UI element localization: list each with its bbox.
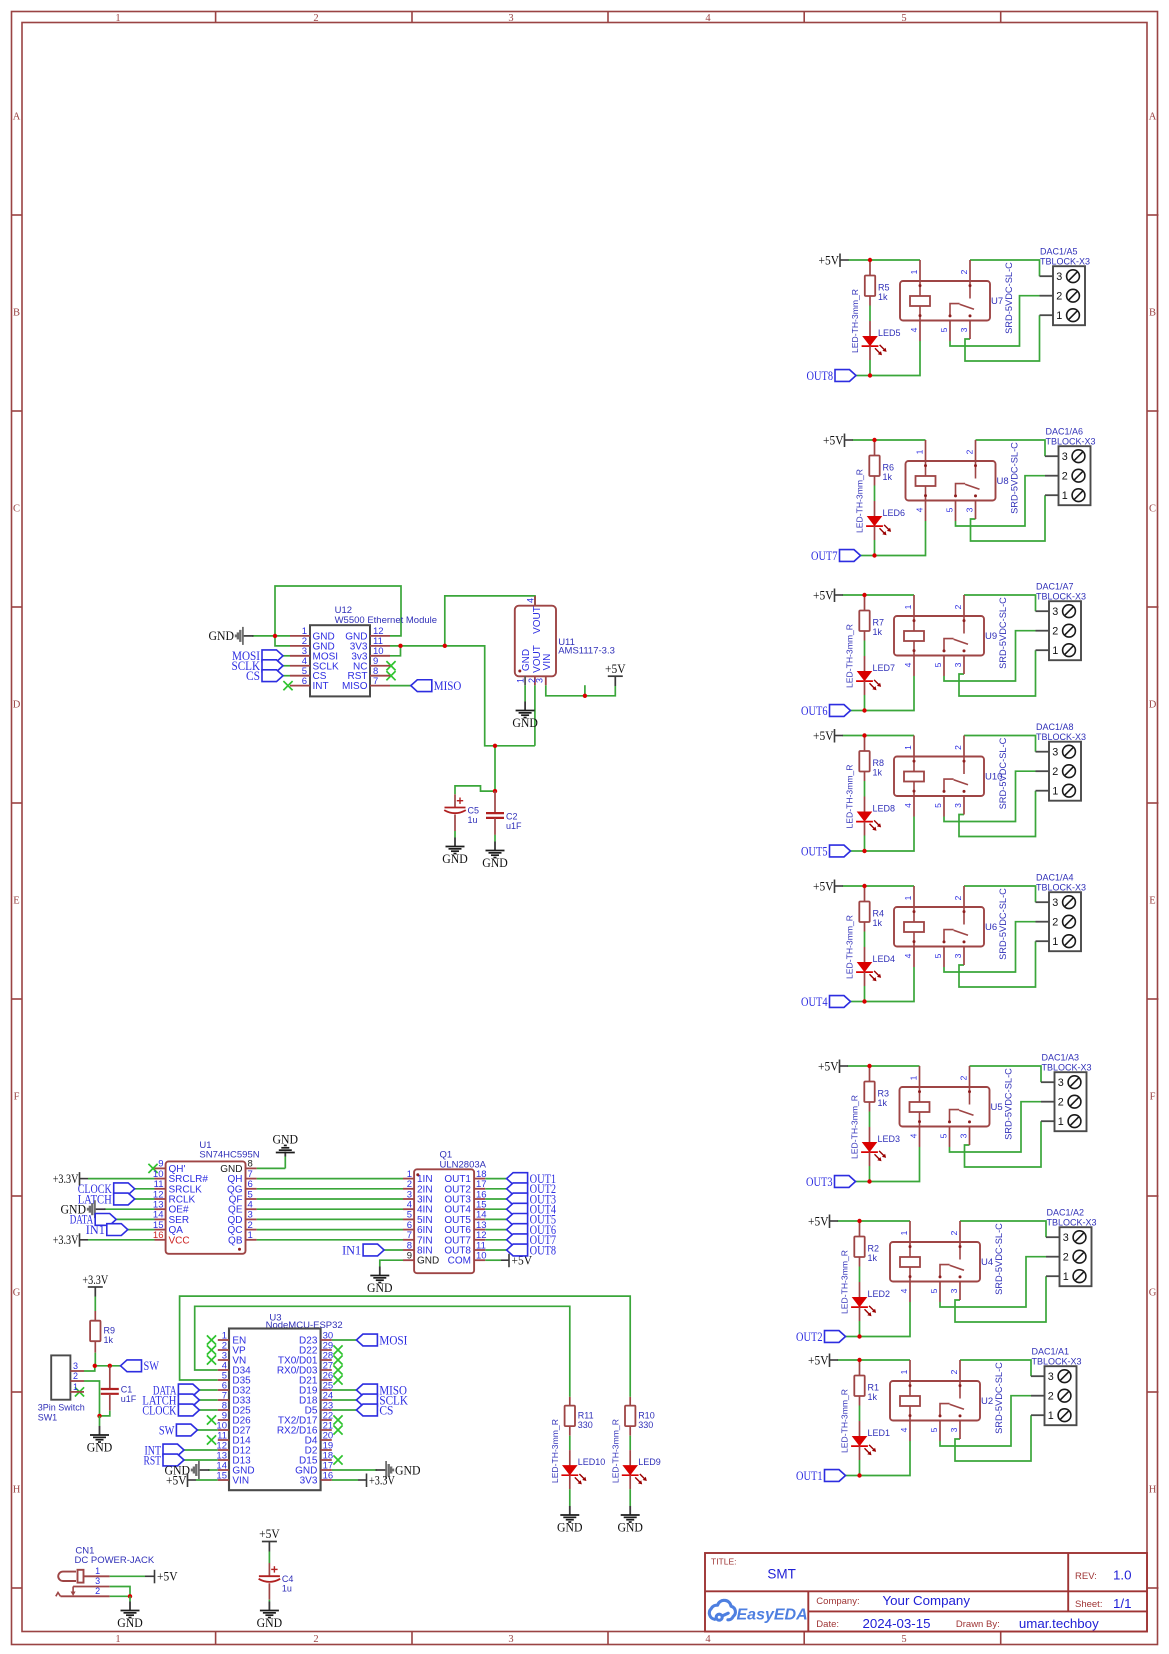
no-connect X U12 pin 8 RST: [386, 671, 395, 680]
junction +5V/R5: [868, 258, 872, 262]
junction U12 GND: [273, 634, 277, 638]
net label OUT3: [835, 1176, 856, 1188]
svg-text:LED-TH-3mm_R: LED-TH-3mm_R: [855, 469, 865, 533]
LED LED9 LED-TH-3mm_R: [629, 1450, 631, 1465]
wire LED10 to ground: [569, 1489, 571, 1506]
svg-text:R10: R10: [638, 1411, 655, 1421]
wire relay pin 5 to terminal DAC1/A2 pin 2: [940, 1257, 1046, 1307]
junction +5V/R7: [862, 593, 866, 597]
svg-text:OUT8: OUT8: [530, 1242, 557, 1257]
wire resistor R6 to LED LED6: [874, 486, 876, 502]
svg-text:1: 1: [909, 1075, 919, 1080]
svg-text:330: 330: [578, 1420, 593, 1430]
wire relay pin 2 to terminal DAC1/A5 pin 3: [970, 260, 1040, 276]
svg-text:2: 2: [959, 1075, 969, 1080]
wire OUT2 to relay pin 4: [860, 1302, 911, 1337]
ground GND (CN1): [129, 1602, 131, 1611]
svg-text:F: F: [1150, 1092, 1156, 1103]
net label MISO (U12): [390, 685, 411, 687]
svg-text:2: 2: [313, 13, 318, 24]
wire C5 to ground: [454, 831, 456, 838]
net label CLOCK (U1): [135, 1188, 155, 1190]
svg-text:OUT8: OUT8: [807, 368, 834, 383]
svg-text:LED1: LED1: [868, 1428, 891, 1438]
svg-text:TBLOCK-X3: TBLOCK-X3: [1032, 1357, 1082, 1367]
svg-text:3: 3: [959, 1133, 969, 1138]
svg-text:LED4: LED4: [873, 954, 896, 964]
relay U7 SRD-5VDC-SL-C: [900, 281, 990, 321]
svg-text:GND: GND: [257, 1615, 283, 1630]
svg-text:3: 3: [953, 803, 963, 808]
svg-text:SRD-5VDC-SL-C: SRD-5VDC-SL-C: [998, 737, 1008, 809]
svg-text:SRD-5VDC-SL-C: SRD-5VDC-SL-C: [994, 1362, 1004, 1434]
power flag GND (U1 OE#): [104, 1208, 155, 1210]
svg-text:2: 2: [949, 1369, 959, 1374]
svg-text:5: 5: [901, 13, 906, 24]
junction OUT4/LED: [862, 999, 866, 1003]
ground GND (Q1 pin 9): [379, 1267, 381, 1276]
net label OUT7: [840, 550, 861, 562]
resistor R11 330: [569, 1397, 571, 1406]
power flag +3.3V (U3 3V3): [332, 1479, 358, 1481]
ground GND (U1 pin 8): [284, 1152, 286, 1157]
svg-text:H: H: [1149, 1485, 1157, 1496]
wire relay pin 3 to terminal DAC1/A8 pin 1: [959, 791, 1036, 837]
ground GND (LED10): [569, 1506, 571, 1515]
svg-text:SRD-5VDC-SL-C: SRD-5VDC-SL-C: [998, 597, 1008, 669]
no-connect X SW1 pin 1: [75, 1387, 84, 1396]
LED LED8 LED-TH-3mm_R: [864, 797, 866, 812]
svg-text:1: 1: [903, 745, 913, 750]
svg-text:3: 3: [1052, 747, 1058, 759]
relay U6 SRD-5VDC-SL-C: [894, 907, 984, 947]
svg-text:DAC1/A1: DAC1/A1: [1032, 1347, 1070, 1357]
svg-text:D: D: [13, 700, 21, 711]
junction OUT6/LED: [862, 708, 866, 712]
svg-text:C1: C1: [121, 1385, 133, 1395]
wire LED to net label OUT6: [851, 710, 865, 712]
net label CLOCK (U3 D25): [199, 1409, 217, 1411]
power flag +5V (U3 VIN): [196, 1479, 218, 1481]
svg-text:R5: R5: [878, 283, 890, 293]
svg-text:GND: GND: [273, 1132, 299, 1147]
svg-text:U5: U5: [991, 1102, 1003, 1113]
net label DATA (U1 SER): [116, 1218, 154, 1220]
svg-text:TBLOCK-X3: TBLOCK-X3: [1046, 437, 1096, 447]
svg-text:5: 5: [939, 327, 949, 332]
net label SCLK (U12): [283, 665, 290, 667]
svg-text:LED-TH-3mm_R: LED-TH-3mm_R: [840, 1389, 850, 1453]
svg-text:3: 3: [535, 678, 545, 683]
junction +5V/R8: [862, 733, 866, 737]
net label OUT6: [830, 705, 851, 717]
svg-text:OUT5: OUT5: [801, 843, 828, 858]
svg-text:LED8: LED8: [873, 804, 896, 814]
net labels OUT1-OUT8 (Q1 outputs): [485, 1178, 506, 1180]
svg-text:SW: SW: [144, 1358, 160, 1373]
svg-text:3: 3: [1048, 1371, 1054, 1383]
svg-text:1k: 1k: [104, 1335, 114, 1345]
junction +5V/R6: [872, 438, 876, 442]
wire Q1 GND pin 9 to ground: [380, 1260, 403, 1266]
wire SW1 pin2 to GND node: [84, 1381, 100, 1416]
svg-text:GND: GND: [482, 855, 508, 870]
svg-text:5: 5: [945, 507, 955, 512]
net label OUT5: [830, 845, 851, 857]
svg-text:VCC: VCC: [169, 1235, 190, 1246]
svg-text:3: 3: [949, 1288, 959, 1293]
LED LED6 LED-TH-3mm_R: [874, 501, 876, 516]
power flag GND (U3 pin14): [208, 1469, 218, 1471]
power flag +5V (OUT8 block): [839, 254, 841, 268]
svg-text:LED10: LED10: [578, 1457, 606, 1467]
svg-text:2: 2: [959, 269, 969, 274]
wire relay pin 5 to terminal DAC1/A4 pin 2: [944, 922, 1036, 972]
svg-text:SRD-5VDC-SL-C: SRD-5VDC-SL-C: [1004, 262, 1014, 334]
svg-text:LED-TH-3mm_R: LED-TH-3mm_R: [850, 289, 860, 353]
svg-text:+5V: +5V: [157, 1569, 178, 1584]
svg-text:DAC1/A6: DAC1/A6: [1046, 427, 1084, 437]
wire relay pin 5 to terminal DAC1/A6 pin 2: [956, 476, 1046, 526]
net label MOSI (U3 D23): [332, 1339, 357, 1341]
wire +5V rail to relay U8 pin 1: [853, 439, 926, 441]
svg-text:+5V: +5V: [808, 1352, 829, 1367]
svg-text:1: 1: [899, 1230, 909, 1235]
svg-text:3: 3: [953, 953, 963, 958]
resistor R7 1k: [864, 595, 866, 611]
svg-text:3: 3: [1062, 451, 1068, 463]
svg-text:1: 1: [1063, 1271, 1069, 1283]
junction +5V/R3: [867, 1064, 871, 1068]
svg-text:U9: U9: [985, 631, 997, 642]
relay U10 SRD-5VDC-SL-C: [894, 757, 984, 797]
svg-text:LED3: LED3: [878, 1134, 901, 1144]
capacitor C5 1u: [454, 794, 456, 807]
svg-text:2: 2: [95, 1586, 100, 1596]
resistor R6 1k: [874, 440, 876, 456]
svg-text:4: 4: [903, 953, 913, 958]
switch SW1 3Pin Switch: [51, 1355, 70, 1399]
net label SW (U3 D27): [197, 1429, 217, 1431]
svg-text:R4: R4: [873, 909, 885, 919]
svg-text:GND: GND: [442, 851, 468, 866]
power flag +5V (OUT7 block): [844, 434, 846, 448]
resistor R8 1k: [864, 736, 866, 752]
svg-text:R7: R7: [873, 618, 885, 628]
svg-text:2: 2: [949, 1230, 959, 1235]
junction 3V3 pin10/pin11: [398, 644, 402, 648]
wire SW node row: [95, 1365, 120, 1367]
wire OUT1 to relay pin 4: [860, 1441, 911, 1476]
wires U1 outputs to Q1 inputs: [257, 1178, 403, 1180]
svg-text:1: 1: [903, 895, 913, 900]
net label CS (U12): [283, 675, 290, 677]
no-connect X U12 pin 9 NC: [386, 661, 395, 670]
svg-text:4: 4: [903, 662, 913, 667]
net label RST (U3 D13): [184, 1459, 218, 1461]
wire resistor R4 to LED LED4: [864, 932, 866, 948]
no-connect X U1 pin 9: [148, 1164, 157, 1173]
ground GND (C5): [454, 838, 456, 847]
wire CN1 pin1 to +5V: [110, 1575, 145, 1577]
svg-text:LED-TH-3mm_R: LED-TH-3mm_R: [850, 1095, 860, 1159]
svg-text:VIN: VIN: [542, 654, 553, 671]
ground GND (C4): [268, 1602, 270, 1611]
junction 3V3 to U11: [443, 644, 447, 648]
capacitor C2 u1F: [494, 791, 496, 813]
svg-text:DAC1/A4: DAC1/A4: [1036, 873, 1074, 883]
svg-text:+5V: +5V: [813, 587, 834, 602]
svg-text:4: 4: [909, 327, 919, 332]
wire OUT7 to relay pin 4: [875, 521, 926, 556]
svg-text:U2: U2: [981, 1396, 993, 1407]
junction SW/R9: [93, 1364, 97, 1368]
LED LED7 LED-TH-3mm_R: [864, 656, 866, 671]
power flag +5V (OUT1 block): [829, 1354, 831, 1368]
svg-text:1: 1: [516, 678, 526, 683]
svg-text:15: 15: [216, 1471, 227, 1482]
wire resistor R8 to LED LED8: [864, 781, 866, 797]
svg-text:330: 330: [638, 1420, 653, 1430]
svg-text:4: 4: [915, 507, 925, 512]
wire relay pin 2 to terminal DAC1/A2 pin 3: [960, 1221, 1046, 1237]
svg-text:umar.techboy: umar.techboy: [1019, 1616, 1099, 1631]
junction OUT3/LED: [867, 1179, 871, 1183]
svg-text:OUT4: OUT4: [801, 994, 828, 1009]
svg-text:5: 5: [901, 1634, 906, 1645]
svg-text:TBLOCK-X3: TBLOCK-X3: [1040, 257, 1090, 267]
wire U11 GND pin1 to ground: [524, 685, 526, 701]
resistor R5 1k: [869, 260, 871, 276]
svg-text:+5V: +5V: [605, 661, 626, 676]
svg-text:4: 4: [526, 598, 536, 603]
wire C1 to GND node: [100, 1411, 110, 1416]
svg-text:2: 2: [1063, 1252, 1069, 1264]
svg-text:2: 2: [953, 895, 963, 900]
net label LATCH (U3 D33): [199, 1399, 217, 1401]
relay U5 SRD-5VDC-SL-C: [900, 1087, 990, 1127]
net label OUT8: [835, 370, 856, 382]
svg-text:5: 5: [929, 1288, 939, 1293]
svg-text:LED-TH-3mm_R: LED-TH-3mm_R: [845, 915, 855, 979]
power flag +5V (OUT4 block): [834, 880, 836, 894]
svg-text:2: 2: [1052, 626, 1058, 638]
svg-text:3: 3: [1056, 271, 1062, 283]
svg-text:1k: 1k: [883, 472, 893, 482]
svg-text:1: 1: [95, 1566, 100, 1576]
wire relay pin 3 to terminal DAC1/A3 pin 1: [965, 1121, 1042, 1167]
svg-text:2: 2: [1062, 471, 1068, 483]
svg-text:1k: 1k: [878, 292, 888, 302]
svg-text:3: 3: [73, 1361, 78, 1371]
wire CN1 to ground: [129, 1596, 131, 1601]
svg-text:1u: 1u: [282, 1584, 292, 1594]
svg-text:u1F: u1F: [506, 821, 522, 831]
power flag GND (U12): [244, 635, 254, 637]
svg-text:LED9: LED9: [638, 1457, 661, 1467]
wire U3 D34 to R11 (long top route): [195, 1306, 570, 1397]
junction 3V3 caps top: [493, 744, 497, 748]
wire relay pin 3 to terminal DAC1/A1 pin 1: [955, 1415, 1031, 1461]
svg-text:3V3: 3V3: [300, 1476, 318, 1487]
svg-text:1.0: 1.0: [1113, 1568, 1132, 1583]
svg-text:4: 4: [903, 803, 913, 808]
wire LED to net label OUT7: [861, 555, 875, 557]
wire R10 to LED9: [629, 1436, 631, 1450]
wire GND loop U12 pin1/pin12: [275, 586, 401, 636]
svg-text:GND: GND: [512, 715, 538, 730]
svg-text:LED2: LED2: [868, 1289, 891, 1299]
svg-text:TBLOCK-X3: TBLOCK-X3: [1036, 883, 1086, 893]
wire relay pin 2 to terminal DAC1/A3 pin 3: [970, 1066, 1042, 1082]
svg-text:C: C: [13, 504, 20, 515]
svg-text:DC POWER-JACK: DC POWER-JACK: [75, 1555, 155, 1566]
net label MISO (U3 D19): [332, 1389, 357, 1391]
svg-text:2: 2: [965, 449, 975, 454]
svg-text:OUT6: OUT6: [801, 703, 828, 718]
svg-text:C2: C2: [506, 812, 518, 822]
wire relay pin 5 to terminal DAC1/A3 pin 2: [950, 1102, 1042, 1152]
svg-text:DAC1/A8: DAC1/A8: [1036, 722, 1074, 732]
svg-text:3: 3: [965, 507, 975, 512]
wire LED to net label OUT5: [851, 850, 865, 852]
svg-text:2: 2: [953, 604, 963, 609]
svg-text:U8: U8: [997, 476, 1009, 487]
svg-text:3Pin Switch: 3Pin Switch: [38, 1403, 85, 1413]
svg-text:CS: CS: [379, 1402, 393, 1417]
wire +5V rail to relay U5 pin 1: [848, 1065, 920, 1067]
svg-text:2: 2: [1048, 1391, 1054, 1403]
junction OUT7/LED: [872, 553, 876, 557]
junction C2 top: [493, 789, 497, 793]
svg-text:4: 4: [705, 1634, 711, 1645]
wire +5V rail to relay U10 pin 1: [843, 735, 915, 737]
svg-text:5: 5: [933, 953, 943, 958]
svg-text:U4: U4: [981, 1257, 993, 1268]
svg-text:CS: CS: [246, 668, 260, 683]
svg-text:R11: R11: [578, 1411, 594, 1421]
svg-text:1: 1: [1052, 936, 1058, 948]
wire U1 pin 8 to GND above: [257, 1167, 286, 1169]
svg-text:+5V: +5V: [813, 878, 834, 893]
svg-text:1/1: 1/1: [1113, 1596, 1132, 1611]
wire relay pin 2 to terminal DAC1/A7 pin 3: [964, 595, 1036, 611]
svg-text:C4: C4: [282, 1574, 294, 1584]
svg-text:OUT3: OUT3: [806, 1174, 833, 1189]
svg-text:R8: R8: [873, 758, 885, 768]
svg-text:GND: GND: [395, 1462, 421, 1477]
wire relay pin 5 to terminal DAC1/A8 pin 2: [944, 771, 1036, 821]
svg-text:9: 9: [407, 1251, 412, 1262]
wire LED9 to ground: [629, 1489, 631, 1506]
svg-text:GND: GND: [209, 628, 235, 643]
svg-text:IN1: IN1: [342, 1242, 361, 1257]
junction SW/C1: [108, 1364, 112, 1368]
svg-text:SRD-5VDC-SL-C: SRD-5VDC-SL-C: [998, 888, 1008, 960]
svg-text:+5V: +5V: [823, 432, 844, 447]
wire resistor R3 to LED LED3: [869, 1112, 871, 1128]
svg-text:1: 1: [1052, 645, 1058, 657]
svg-text:u1F: u1F: [121, 1394, 137, 1404]
wire +5V rail to relay U7 pin 1: [848, 259, 920, 261]
svg-text:1: 1: [115, 1634, 120, 1645]
svg-text:LED-TH-3mm_R: LED-TH-3mm_R: [845, 765, 855, 829]
svg-text:3: 3: [953, 662, 963, 667]
svg-text:+5V: +5V: [813, 728, 834, 743]
svg-text:7: 7: [373, 676, 378, 687]
svg-text:D: D: [1149, 700, 1157, 711]
svg-text:B: B: [1149, 308, 1156, 319]
svg-text:4: 4: [899, 1288, 909, 1293]
svg-text:2: 2: [1052, 766, 1058, 778]
svg-text:TBLOCK-X3: TBLOCK-X3: [1047, 1218, 1097, 1228]
wire GND node down: [99, 1416, 101, 1426]
wire U11 VIN to +5V: [546, 685, 616, 696]
svg-text:1k: 1k: [868, 1392, 878, 1402]
svg-text:AMS1117-3.3: AMS1117-3.3: [558, 646, 615, 657]
svg-text:LED-TH-3mm_R: LED-TH-3mm_R: [845, 624, 855, 688]
wire resistor R7 to LED LED7: [864, 641, 866, 657]
svg-text:10: 10: [476, 1251, 487, 1262]
svg-text:RST: RST: [144, 1452, 162, 1467]
svg-text:DAC1/A7: DAC1/A7: [1036, 582, 1074, 592]
svg-text:1: 1: [909, 269, 919, 274]
wire 3V3 branch up to U11 VOUT pin 4: [445, 596, 535, 646]
svg-text:1: 1: [903, 604, 913, 609]
svg-text:2: 2: [1052, 917, 1058, 929]
power flag +3.3V (U1 SRCLR#): [88, 1178, 155, 1180]
resistor R3 1k: [869, 1066, 871, 1082]
svg-text:R1: R1: [868, 1383, 880, 1393]
svg-text:2: 2: [1058, 1097, 1064, 1109]
svg-text:R9: R9: [104, 1326, 116, 1336]
svg-text:C5: C5: [468, 806, 480, 816]
wire Q1 COM to +5V: [485, 1259, 501, 1261]
svg-text:1: 1: [73, 1382, 78, 1392]
wire OUT8 to relay pin 4: [870, 341, 920, 376]
svg-text:3: 3: [959, 327, 969, 332]
svg-text:TBLOCK-X3: TBLOCK-X3: [1036, 732, 1086, 742]
svg-text:VIN: VIN: [232, 1476, 249, 1487]
svg-text:MOSI: MOSI: [379, 1332, 407, 1347]
svg-text:1k: 1k: [878, 1098, 888, 1108]
svg-text:1: 1: [1058, 1116, 1064, 1128]
wire +5V rail to relay U2 pin 1: [838, 1359, 911, 1361]
svg-text:GND: GND: [521, 649, 532, 671]
svg-text:1k: 1k: [873, 918, 883, 928]
wire R9 to SW node: [94, 1353, 96, 1366]
svg-text:1: 1: [248, 1230, 253, 1241]
voltage regulator U11 AMS1117-3.3: [515, 606, 556, 677]
wire +5V rail to relay U6 pin 1: [843, 885, 915, 887]
power flag +5V (OUT6 block): [834, 589, 836, 603]
wire OUT5 to relay pin 4: [865, 817, 915, 852]
wire relay pin 2 to terminal DAC1/A6 pin 3: [976, 440, 1046, 456]
svg-text:LED-TH-3mm_R: LED-TH-3mm_R: [840, 1250, 850, 1314]
svg-text:MISO: MISO: [342, 681, 368, 692]
wire relay pin 5 to terminal DAC1/A1 pin 2: [940, 1396, 1031, 1446]
wire U11 VOUT pin2 down to 3V3 rail: [534, 685, 536, 746]
svg-text:G: G: [1149, 1288, 1157, 1299]
junction +5V/R2: [857, 1219, 861, 1223]
relay U2 SRD-5VDC-SL-C: [890, 1381, 980, 1421]
svg-text:Your Company: Your Company: [883, 1593, 971, 1608]
net label IN1 (Q1 8IN): [384, 1249, 403, 1251]
svg-text:3: 3: [508, 1634, 513, 1645]
junction OUT5/LED: [862, 849, 866, 853]
wire LED to net label OUT1: [846, 1475, 860, 1477]
svg-text:+5V: +5V: [166, 1472, 187, 1487]
